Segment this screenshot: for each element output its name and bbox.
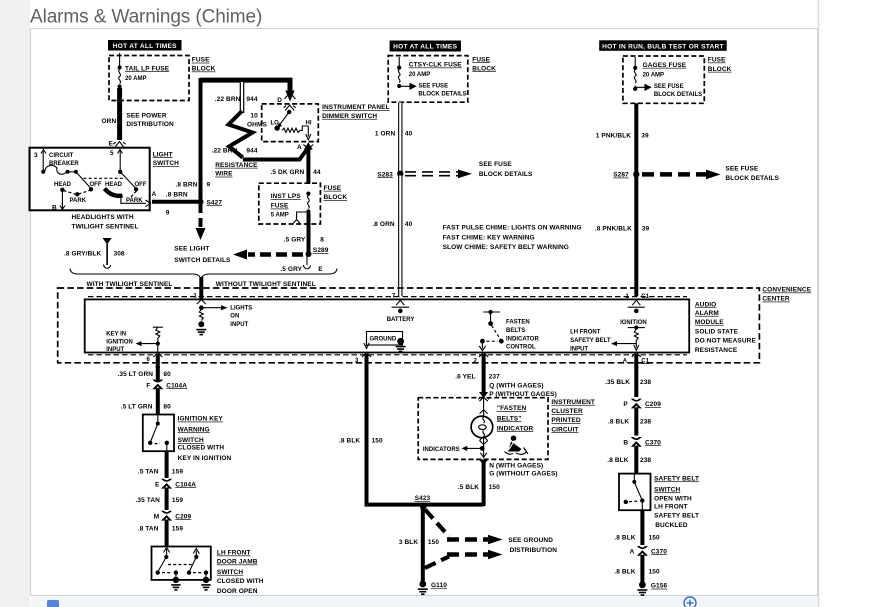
svg-text:C104A: C104A [166,382,187,389]
svg-text:.22 BRN: .22 BRN [215,96,241,103]
svg-text:S289: S289 [313,247,329,254]
svg-text:BREAKER: BREAKER [49,161,79,167]
svg-text:LIGHTS: LIGHTS [230,305,252,311]
svg-text:C104A: C104A [175,481,196,488]
right switch wiper to OFF [120,172,135,188]
dashed OFF to PARK (right) [130,191,137,198]
pin B arrow [52,203,65,211]
svg-text:20 AMP: 20 AMP [125,76,146,82]
svg-text:P: P [623,401,628,408]
instrument panel dimmer switch dashed box [262,104,319,142]
svg-text:FAST CHIME: KEY WARNING: FAST CHIME: KEY WARNING [443,234,535,241]
svg-text:A: A [630,548,635,555]
svg-text:.8 PNK/BLK: .8 PNK/BLK [595,225,632,232]
wire light switch A to S427 [152,200,199,204]
svg-text:238: 238 [640,419,651,426]
fasten belts indicator control switch [479,310,503,351]
audio alarm module solid box [85,299,690,352]
wire .35 BLK pin A C1 down to C209 [634,366,638,397]
svg-text:AUDIO: AUDIO [695,301,716,308]
svg-text:39: 39 [641,132,649,139]
svg-text:INPUT: INPUT [230,322,248,328]
thick dashed arrow right from S287 [642,170,721,180]
ignition key warning switch box [143,415,174,452]
bottom gray strip [31,596,817,607]
safety belt switch box [619,474,651,511]
svg-text:M: M [154,513,160,520]
svg-text:HEAD: HEAD [105,182,123,188]
dimmer HI output down arrow to A [306,126,311,140]
wire .8 BLK C209 to C370 [634,407,638,435]
contact dot OFF (right) [134,187,138,191]
svg-text:A: A [623,358,628,364]
svg-text:BATTERY: BATTERY [387,317,415,323]
svg-text:237: 237 [489,374,500,381]
svg-text:SEE POWER: SEE POWER [126,112,166,119]
cluster entry chevrons [478,397,489,416]
svg-text:DOOR JAMB: DOOR JAMB [217,559,258,566]
svg-text:3 BLK: 3 BLK [399,539,418,546]
svg-text:.35 TAN: .35 TAN [136,497,161,504]
switch contacts (ignition key warning) [148,415,169,452]
svg-text:BLOCK DETAILS: BLOCK DETAILS [654,92,702,98]
svg-text:GAGES FUSE: GAGES FUSE [643,62,687,69]
fuse F tail lamp: lead wire [119,53,121,67]
blue plus circle icon bottom [684,597,696,607]
svg-text:SWITCH DETAILS: SWITCH DETAILS [174,257,231,264]
svg-text:159: 159 [172,525,183,532]
connector C370 (B) [623,437,661,447]
svg-text:.8 BLK: .8 BLK [608,419,629,426]
svg-text:SEE FUSE: SEE FUSE [418,83,448,89]
internal ground (lights on) [196,321,206,334]
circuit breaker symbol [41,165,78,174]
svg-text:C1: C1 [641,294,649,300]
svg-text:"FASTEN: "FASTEN [497,405,527,412]
svg-text:INST LPS: INST LPS [271,193,302,200]
svg-text:SEE FUSE: SEE FUSE [479,161,513,168]
svg-text:1 ORN: 1 ORN [375,130,396,137]
wire 1 PNK/BLK from gages fuse down to S287 [634,103,638,173]
svg-text:BLOCK DETAILS: BLOCK DETAILS [418,92,466,98]
key in ignition input assembly [136,327,163,352]
wire .5 GRY from fuse to S289 [307,213,311,254]
lamp lower chevrons and indicators tap [461,437,487,458]
svg-text:SLOW CHIME: SAFETY BELT WARNIN: SLOW CHIME: SAFETY BELT WARNING [443,244,569,251]
svg-text:20 AMP: 20 AMP [409,72,430,78]
fuse inst lps symbol [306,192,310,214]
svg-text:8: 8 [320,236,324,243]
svg-text:C370: C370 [651,548,667,555]
wire .8 BLK C370 to safety belt switch [634,446,638,474]
svg-text:BLOCK: BLOCK [708,66,732,73]
svg-text:80: 80 [163,371,171,378]
svg-text:BLOCK: BLOCK [192,66,216,73]
svg-text:.35 LT GRN: .35 LT GRN [118,371,154,378]
svg-text:.8 GRY/BLK: .8 GRY/BLK [64,250,101,257]
arrow up into dimmer A [304,142,313,149]
door jamb switch contacts (right) [187,549,211,590]
svg-text:E: E [318,266,323,273]
svg-text:944: 944 [246,148,257,155]
svg-text:39: 39 [642,225,650,232]
svg-text:LH FRONT: LH FRONT [654,504,688,511]
connector C104A (E) [155,479,196,489]
right page divider line [818,0,820,607]
svg-text:944: 944 [246,96,257,103]
switch contacts (safety belt) [624,474,645,511]
svg-text:FUSE: FUSE [192,57,210,64]
svg-text:S427: S427 [207,199,223,206]
brace gathering sentinel options [70,269,337,280]
svg-text:PRINTED: PRINTED [551,417,580,424]
svg-text:DOOR OPEN: DOOR OPEN [217,588,258,595]
splice S423 [415,495,431,510]
wire dashed below S427 with down arrow [196,204,206,240]
wire .8 TAN C209 to door jamb switch [165,520,169,547]
lh front door jamb switch box [152,547,211,580]
wire .8 BLK ground pin3 down and right to S423 [367,366,484,505]
svg-text:INDICATOR: INDICATOR [506,336,539,342]
wire 1 ORN double-line from fuse box down to S283 [398,103,402,173]
svg-text:159: 159 [172,497,183,504]
connector dashed line (top) [88,296,687,298]
door jamb switch contacts (left) [156,548,181,590]
wire .5 BLK cluster to S423 [482,463,486,506]
fuse F ctsy-clk: lead [398,57,400,67]
svg-text:20 AMP: 20 AMP [643,72,664,78]
svg-text:OFF: OFF [135,182,147,188]
svg-text:FASTEN: FASTEN [506,320,530,326]
svg-text:150: 150 [649,569,660,576]
svg-text:A: A [297,144,302,151]
wire .35 TAN C104A to C209 [165,488,169,511]
svg-text:.8 BLK: .8 BLK [614,569,635,576]
svg-text:C209: C209 [175,513,191,520]
svg-text:SAFETY BELT: SAFETY BELT [654,475,699,482]
wire .6 YEL pin2 down to instrument cluster [482,366,486,393]
svg-text:10: 10 [250,113,258,120]
svg-text:CENTER: CENTER [762,296,790,303]
wire .5 TAN switch to C104A E [165,451,169,478]
svg-text:FUSE: FUSE [708,57,726,64]
contact dot HEAD (left) [60,188,64,192]
svg-text:.5 GRY: .5 GRY [284,236,306,243]
svg-text:HEADLIGHTS WITH: HEADLIGHTS WITH [72,214,134,221]
ground G110 [418,581,447,595]
svg-text:.8 TAN: .8 TAN [138,525,159,532]
wire 3 BLK S423 down to G110 [421,506,425,583]
dashed branch arrow upper (see ground distribution) [425,510,503,545]
svg-text:INPUT: INPUT [106,347,124,353]
svg-text:OFF: OFF [90,182,102,188]
dashed center line [84,177,125,179]
svg-text:5: 5 [110,150,114,157]
svg-text:IGNITION: IGNITION [620,320,647,326]
svg-text:FAST PULSE CHIME: LIGHTS ON W: FAST PULSE CHIME: LIGHTS ON WARNING [443,224,582,231]
convenience center outer dashed box [58,288,760,363]
svg-text:.5 TAN: .5 TAN [138,468,159,475]
svg-text:308: 308 [114,250,125,257]
svg-text:A: A [152,191,157,198]
svg-text:SWITCH: SWITCH [178,437,204,444]
left switch wiper 3 to OFF [76,172,91,188]
svg-text:SEE GROUND: SEE GROUND [508,537,553,544]
svg-text:SEE LIGHT: SEE LIGHT [174,245,209,252]
svg-text:INPUT: INPUT [570,347,588,353]
seat belt person icon [505,436,529,455]
svg-text:INSTRUMENT: INSTRUMENT [551,399,595,406]
svg-text:C370: C370 [645,439,661,446]
svg-text:KEY IN IGNITION: KEY IN IGNITION [178,455,232,462]
svg-text:LH FRONT: LH FRONT [217,550,251,557]
svg-text:CONTROL: CONTROL [506,345,536,351]
wire .5 LT GRN C104A to switch [156,388,160,415]
pin A arrow out right edge [146,191,157,207]
svg-text:238: 238 [640,379,651,386]
ignition resistor and arrows [611,326,645,351]
svg-text:BLOCK DETAILS: BLOCK DETAILS [479,171,533,178]
contact dot OFF (left) [89,187,93,191]
svg-text:SAFETY BELT: SAFETY BELT [654,512,699,519]
svg-text:F: F [146,382,150,389]
svg-text:INSTRUMENT PANEL: INSTRUMENT PANEL [322,104,390,111]
wire zigzag to dimmer A arrow [243,150,307,160]
fasten belts indicator lamp [471,416,493,438]
node E terminal arrow at light switch top [109,141,126,148]
svg-text:RESISTANCE: RESISTANCE [695,347,738,354]
svg-text:.6 YEL: .6 YEL [455,374,475,381]
svg-text:Alarms & Warnings (Chime): Alarms & Warnings (Chime) [30,7,262,28]
connector dashed line (bottom) [88,354,687,356]
ground G156 [637,581,667,595]
battery input assembly pin 7 [392,294,410,314]
svg-text:238: 238 [640,457,651,464]
dashed link between door jamb switches [168,564,193,566]
svg-text:FUSE: FUSE [271,203,289,210]
ignition input assembly [628,300,645,313]
svg-text:LO: LO [271,120,280,126]
svg-text:P (WITHOUT GAGES): P (WITHOUT GAGES) [489,391,557,398]
svg-text:B: B [623,439,628,446]
svg-text:150: 150 [428,539,439,546]
svg-text:BLOCK DETAILS: BLOCK DETAILS [725,175,779,182]
wire sentinel input entering pin 1 [194,277,206,304]
svg-text:HEAD: HEAD [54,182,72,188]
pin 6 exit [147,353,163,368]
svg-text:5 AMP: 5 AMP [271,213,289,219]
svg-text:.5 LT GRN: .5 LT GRN [121,404,153,411]
svg-text:OHMS: OHMS [247,121,267,128]
svg-text:INDICATOR: INDICATOR [497,425,534,432]
svg-text:WARNING: WARNING [178,426,210,433]
connector C104A (F) [146,380,187,390]
blue square icon bottom-left [47,600,59,607]
wire PARK to A arrow [121,196,146,204]
svg-text:BELTS": BELTS" [497,415,522,422]
ground module symbol near battery [367,332,406,352]
pin 5 [110,150,123,172]
arrow into dimmer D [285,91,294,102]
svg-text:SEE FUSE: SEE FUSE [725,166,759,173]
svg-text:GROUND: GROUND [370,337,397,343]
svg-text:DISTRIBUTION: DISTRIBUTION [126,121,174,128]
splice S283 [377,171,403,179]
svg-text:WITH TWILIGHT SENTINEL: WITH TWILIGHT SENTINEL [87,281,173,288]
svg-text:CIRCUIT: CIRCUIT [49,153,74,159]
label HOT AT ALL TIMES (left) [108,40,182,51]
svg-text:DISTRIBUTION: DISTRIBUTION [510,547,558,554]
svg-text:G156: G156 [651,583,668,590]
left gray margin strip [0,0,30,607]
svg-text:LH FRONT: LH FRONT [570,330,601,336]
dashed branch arrow lower (see ground distribution) [425,550,503,568]
svg-text:S283: S283 [377,171,393,178]
svg-text:MODULE: MODULE [695,319,724,326]
fuse block dashed box (tail lp fuse) [109,56,189,101]
svg-text:BUCKLED: BUCKLED [655,522,688,529]
splice S289 [306,247,329,257]
svg-text:D: D [277,97,282,104]
terminal stub with fork inside fuse box [293,212,308,224]
svg-text:ORN: ORN [102,118,117,125]
svg-text:ON: ON [230,314,239,320]
dashed arrow left from S289 to see light switch details [233,250,303,260]
pin A C1 exit [623,353,650,368]
svg-text:9: 9 [166,210,170,217]
svg-text:.8 BRN: .8 BRN [166,192,188,199]
fuse F gages: lead [634,57,636,67]
svg-text:Q (WITH GAGES): Q (WITH GAGES) [489,383,543,390]
svg-text:DIMMER SWITCH: DIMMER SWITCH [322,113,377,120]
wire ORN from tail fuse down to light switch E [117,88,122,140]
svg-text:DO NOT MEASURE: DO NOT MEASURE [695,338,757,345]
svg-text:.8 BLK: .8 BLK [339,437,360,444]
wire thick bus top (to dimmer D) [201,80,291,91]
svg-text:1 PNK/BLK: 1 PNK/BLK [596,132,631,139]
fuse F gages symbol [633,66,637,91]
fuse F ctsy-clk symbol [397,66,401,89]
connector C209 (M) [154,511,192,521]
connector C209 (P) [623,399,661,409]
svg-text:G110: G110 [431,582,447,589]
svg-text:KEY IN: KEY IN [106,332,126,338]
svg-text:CIRCUIT: CIRCUIT [551,426,578,433]
svg-text:HOT IN RUN, BULB TEST OR START: HOT IN RUN, BULB TEST OR START [602,43,724,50]
svg-text:SWITCH: SWITCH [217,569,243,576]
svg-text:159: 159 [172,468,183,475]
svg-text:44: 44 [313,169,321,176]
svg-text:HOT AT ALL TIMES: HOT AT ALL TIMES [113,43,177,50]
svg-text:150: 150 [649,534,660,541]
wire .8 ORN double-line from S283 down to convenience center [398,176,402,297]
dimmer wiper arrow to D [275,105,296,131]
arrow into cluster [479,392,488,399]
connector C370 (A) [630,546,668,556]
svg-text:.8 ORN: .8 ORN [372,221,394,228]
svg-text:C209: C209 [645,401,661,408]
node lights on input: dot and arrow [199,305,228,310]
svg-text:SWITCH: SWITCH [153,160,179,167]
svg-text:LIGHT: LIGHT [153,151,173,158]
svg-text:.8 BLK: .8 BLK [607,457,628,464]
svg-text:CTSY-CLK FUSE: CTSY-CLK FUSE [409,62,463,69]
svg-text:.35 BLK: .35 BLK [605,379,630,386]
svg-text:.5 DK GRN: .5 DK GRN [271,169,305,176]
resistance wire zigzag [229,111,253,158]
svg-text:WIRE: WIRE [215,171,233,178]
fuse block dashed box (gages) [623,56,704,103]
svg-text:40: 40 [405,221,413,228]
svg-text:.8 BRN: .8 BRN [176,181,198,188]
cluster exit arrow [479,459,488,465]
light switch box [30,148,150,211]
contact dot 5 [118,170,122,174]
svg-text:G (WITHOUT GAGES): G (WITHOUT GAGES) [489,471,558,478]
label HOT AT ALL TIMES (center) [390,41,461,52]
svg-text:150: 150 [372,437,383,444]
wire .35 LT GRN pin6 to C104A [156,366,160,381]
wire .8 BLK C370 to G156 [640,555,644,583]
svg-text:INDICATORS: INDICATORS [423,447,460,453]
pin 3 ground exit arrow [355,338,371,368]
wire .22 BRN double line upper [240,82,245,113]
svg-text:OPEN WITH: OPEN WITH [654,495,692,502]
svg-text:.5 GRY: .5 GRY [280,266,302,273]
svg-text:HI: HI [306,120,312,126]
svg-text:WITHOUT TWILIGHT SENTINEL: WITHOUT TWILIGHT SENTINEL [216,281,316,288]
svg-text:BELTS: BELTS [506,328,525,334]
splice S427 [198,199,223,207]
wire .8 BRN vertical from top bus to S427 [199,78,203,202]
double dashed arrow right from S283 [405,170,472,179]
inst lps fuse dashed box [259,183,321,224]
connector triangle .8 GRY/BLK from sentinel [103,238,112,268]
svg-text:80: 80 [163,404,171,411]
svg-text:S287: S287 [613,172,629,179]
svg-text:HOT AT ALL TIMES: HOT AT ALL TIMES [393,44,457,51]
svg-text:.5 BLK: .5 BLK [458,484,479,491]
resistor to ground (lights on) [199,310,203,321]
arrow see fuse block details (inside gages box) [635,85,650,91]
fuse block dashed box (ctsy-clk) [388,56,468,103]
pin 2 exit [474,353,489,368]
svg-text:BLOCK: BLOCK [324,194,348,201]
svg-text:IGNITION: IGNITION [106,339,133,345]
svg-text:FUSE: FUSE [472,56,490,63]
svg-text:.22 BRN: .22 BRN [212,148,238,155]
svg-text:ALARM: ALARM [695,310,719,317]
svg-text:RESISTANCE: RESISTANCE [215,162,258,169]
svg-text:C1: C1 [641,358,649,364]
svg-text:SWITCH: SWITCH [654,486,680,493]
svg-text:N (WITH GAGES): N (WITH GAGES) [489,462,543,469]
dimmer rheostat zigzag [282,126,308,132]
contact dot PARK (left) [75,192,79,196]
dashed contact HEAD-PARK-OFF (left) [64,191,90,195]
svg-text:SAFETY BELT: SAFETY BELT [570,338,611,344]
svg-text:B: B [52,204,57,211]
svg-text:E: E [109,141,114,148]
splice S287 [613,171,639,178]
svg-text:S423: S423 [415,495,431,502]
fuse F tail lamp symbol [118,65,122,88]
arrow see fuse block details (inside ctsy box) [399,84,415,90]
svg-text:150: 150 [489,484,500,491]
svg-text:.8 BLK: .8 BLK [614,534,635,541]
instrument cluster dashed box [418,398,548,460]
svg-text:SOLID STATE: SOLID STATE [695,329,739,336]
